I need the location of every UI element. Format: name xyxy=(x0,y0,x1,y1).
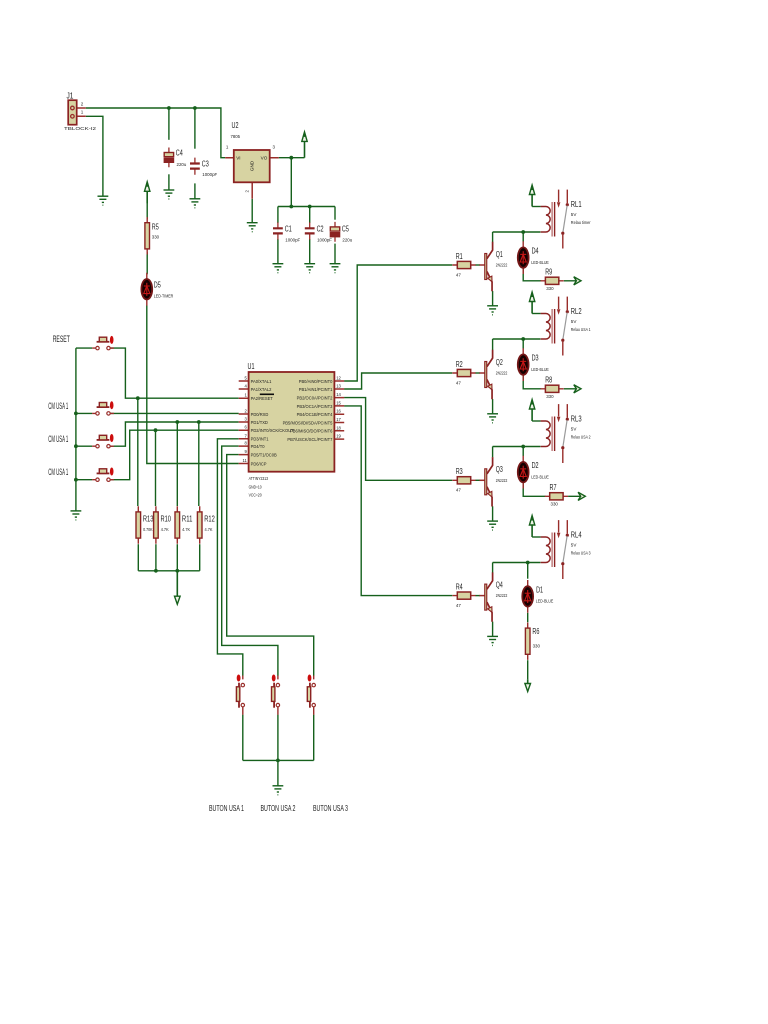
wire VO branch down to cap rail xyxy=(290,158,292,207)
svg-text:4: 4 xyxy=(244,384,247,389)
svg-text:16: 16 xyxy=(336,409,341,414)
wire D5 cathode to U1 PD6 xyxy=(147,306,239,464)
svg-text:ATTINY2313: ATTINY2313 xyxy=(249,476,269,481)
svg-text:19: 19 xyxy=(336,434,341,439)
wire CM USA row3 to U1 PD2 xyxy=(111,430,239,480)
capacitor C5 (electrolytic) xyxy=(330,222,339,242)
svg-text:C4: C4 xyxy=(176,149,183,158)
svg-text:PD0/RXD: PD0/RXD xyxy=(251,412,269,417)
wire J1 pin1 to ground xyxy=(86,116,103,196)
wire R6 to down arrow xyxy=(527,660,529,679)
svg-text:GND=10: GND=10 xyxy=(249,484,262,489)
node RESET/R13 junction xyxy=(136,396,140,400)
svg-text:4.7K: 4.7K xyxy=(161,527,169,532)
wire D1 cathode to R6 xyxy=(527,613,529,622)
power +5V arrow for RL2 xyxy=(529,292,534,314)
wire R9 output xyxy=(564,280,580,282)
wire left button bus xyxy=(75,348,77,511)
node R10 net junction xyxy=(154,428,158,432)
wire Q3 collector to relay coil xyxy=(493,446,541,448)
svg-text:TBLOCK-I2: TBLOCK-I2 xyxy=(64,126,97,131)
ground below Q1 xyxy=(487,306,498,315)
svg-text:C1: C1 xyxy=(285,224,292,233)
svg-text:BUTON USA 3: BUTON USA 3 xyxy=(313,804,348,813)
connector J1 (TBLOCK-I2) xyxy=(68,100,86,125)
svg-text:2N2222: 2N2222 xyxy=(496,478,508,483)
wire LED drop row 3 xyxy=(522,447,524,457)
push button RESET xyxy=(92,336,114,350)
wire U1 PD3 to BUTON USA 1 xyxy=(217,439,242,676)
svg-text:5V: 5V xyxy=(571,212,578,217)
wire Q1 emitter to ground xyxy=(492,291,494,306)
svg-text:1000pF: 1000pF xyxy=(285,238,300,243)
svg-text:R5: R5 xyxy=(152,223,159,232)
ground below Q4 xyxy=(487,636,498,645)
wire BUTON USA 1 bottom xyxy=(242,715,244,761)
node C4 tap on V+ wire xyxy=(167,106,171,110)
svg-text:2: 2 xyxy=(81,102,84,107)
svg-text:17: 17 xyxy=(336,417,341,422)
svg-text:R7: R7 xyxy=(550,483,557,492)
svg-text:Q2: Q2 xyxy=(496,358,503,367)
resistor R3 (47) xyxy=(452,477,475,484)
svg-text:2: 2 xyxy=(244,409,247,414)
svg-text:0.70K: 0.70K xyxy=(143,527,153,532)
wire LED drop row 4 xyxy=(527,563,529,579)
push button BUTON USA 3 xyxy=(307,675,315,715)
node Q2 collector junction xyxy=(521,337,525,341)
svg-text:PD6/ICP: PD6/ICP xyxy=(251,461,267,466)
node pullup rail junction R11 xyxy=(175,569,179,573)
svg-text:1: 1 xyxy=(226,145,229,150)
resistor R12 (4.7K) xyxy=(197,506,202,543)
svg-text:220u: 220u xyxy=(342,238,352,243)
svg-text:RL1: RL1 xyxy=(571,200,582,209)
output arrow after R8 xyxy=(574,385,581,393)
svg-text:R10: R10 xyxy=(161,514,172,523)
ground below C5 xyxy=(330,264,341,273)
ground below J1 xyxy=(98,196,109,205)
wire Q4 collector to relay coil xyxy=(493,562,541,564)
relay RL4 xyxy=(541,520,569,579)
wire R3 to Q3 base xyxy=(475,479,480,481)
push button CM USA 1 (row2) xyxy=(92,434,114,448)
node bus row1 junction xyxy=(74,412,78,416)
svg-text:4.7K: 4.7K xyxy=(205,527,213,532)
wire R10 to PD2 net xyxy=(155,430,157,506)
resistor R9 (330) xyxy=(541,277,564,284)
power +5V arrow at U2 output xyxy=(302,132,307,158)
wire D2 cathode to R7 xyxy=(523,482,545,496)
svg-text:D3: D3 xyxy=(532,354,539,363)
svg-text:PB1/AIN1/PCINT1: PB1/AIN1/PCINT1 xyxy=(299,387,333,392)
svg-text:Q1: Q1 xyxy=(496,250,503,259)
wire relay RL1 coil feed xyxy=(532,206,541,208)
ground below C3 xyxy=(190,199,201,208)
svg-text:11: 11 xyxy=(242,458,247,463)
wire C4 top tap xyxy=(168,108,170,140)
svg-text:47: 47 xyxy=(456,272,462,277)
svg-text:6: 6 xyxy=(244,425,247,430)
transistor Q3 (NPN 2N2222) xyxy=(479,457,492,506)
svg-text:5V: 5V xyxy=(571,542,578,547)
svg-text:RL3: RL3 xyxy=(571,415,582,424)
svg-text:15: 15 xyxy=(336,400,341,405)
transistor Q4 (NPN 2N2222) xyxy=(479,572,492,621)
ground below C4 xyxy=(164,190,175,199)
wire relay RL3 coil feed xyxy=(532,420,541,422)
svg-text:PB3/OC1A/PCINT3: PB3/OC1A/PCINT3 xyxy=(297,404,333,409)
wire rail to C5 xyxy=(334,207,336,220)
svg-text:Relau USA 2: Relau USA 2 xyxy=(571,435,591,440)
wire capacitor rail xyxy=(278,206,335,208)
wire Q2 emitter to ground xyxy=(492,399,494,414)
svg-text:PD5/T1/OC0B: PD5/T1/OC0B xyxy=(251,453,277,458)
svg-text:330: 330 xyxy=(152,235,160,240)
svg-text:R1: R1 xyxy=(456,252,463,261)
svg-text:GND: GND xyxy=(250,160,255,171)
svg-text:LED-BLUE: LED-BLUE xyxy=(531,260,549,265)
wire bus to CM USA row3 xyxy=(76,479,92,481)
wire BUTON USA 3 bottom xyxy=(313,715,315,761)
wire U1 PB1 to R2 xyxy=(344,373,452,389)
wire buttons bottom rail xyxy=(243,759,314,761)
output arrow after R9 xyxy=(574,277,581,285)
svg-text:PD2/INT0/XCK/CKOUT: PD2/INT0/XCK/CKOUT xyxy=(251,428,294,433)
svg-text:1: 1 xyxy=(81,110,84,115)
svg-text:4.7K: 4.7K xyxy=(182,527,190,532)
wire R1 to Q1 base xyxy=(475,264,480,266)
wire +5V to R5 xyxy=(146,193,148,219)
svg-text:Q4: Q4 xyxy=(496,580,503,589)
svg-text:PB7/USCK/SCL/PCINT7: PB7/USCK/SCL/PCINT7 xyxy=(287,437,333,442)
svg-text:Relau USA 3: Relau USA 3 xyxy=(571,551,591,556)
svg-text:PB5/MOSI/DI/SDA/PCINT5: PB5/MOSI/DI/SDA/PCINT5 xyxy=(283,420,334,425)
wire R4 to Q4 base xyxy=(475,595,480,597)
capacitor C1 xyxy=(273,222,283,239)
wire Q3 collector vertical xyxy=(492,447,494,458)
node Q3 collector junction xyxy=(521,445,525,449)
ground below Q3 xyxy=(487,521,498,530)
wire C3 top tap xyxy=(194,108,196,149)
resistor R4 (47) xyxy=(452,592,475,599)
wire relay RL2 coil feed xyxy=(532,313,541,315)
wire BUTON USA 2 bottom xyxy=(277,715,279,761)
wire rail to C2 xyxy=(309,207,311,223)
ground below Q2 xyxy=(487,414,498,423)
svg-text:D2: D2 xyxy=(532,461,539,470)
wire LED drop row 1 xyxy=(522,232,524,242)
svg-text:LED-BLUE: LED-BLUE xyxy=(531,474,549,479)
wire R13 bottom xyxy=(137,544,139,571)
wire Q1 collector to relay coil xyxy=(493,231,541,233)
svg-text:C2: C2 xyxy=(317,224,324,233)
svg-text:330: 330 xyxy=(546,286,554,291)
wire Q2 collector to relay coil xyxy=(493,338,541,340)
wire D3 cathode to R8 xyxy=(523,375,541,389)
svg-text:R6: R6 xyxy=(532,627,539,636)
svg-text:47: 47 xyxy=(456,488,462,493)
push button BUTON USA 1 xyxy=(236,675,244,715)
capacitor C3 xyxy=(190,158,200,175)
svg-text:VO: VO xyxy=(261,156,268,161)
svg-text:R2: R2 xyxy=(456,360,463,369)
svg-text:CM USA 1: CM USA 1 xyxy=(48,401,68,411)
wire Q4 collector vertical xyxy=(492,563,494,573)
label U1 PA2/RESET overline xyxy=(260,393,274,395)
wire CM USA row1 to U1 PD0 xyxy=(111,412,239,414)
wire pullup bottom rail xyxy=(138,570,199,572)
svg-text:R9: R9 xyxy=(545,267,552,276)
svg-text:LED-BLUE: LED-BLUE xyxy=(536,599,554,604)
svg-text:RL2: RL2 xyxy=(571,307,582,316)
resistor R5 (330) xyxy=(145,217,150,254)
wire U1 PB0 to R1 xyxy=(344,265,452,381)
svg-text:U1: U1 xyxy=(248,362,255,371)
node VO junction xyxy=(289,156,293,160)
svg-text:PD3/INT1: PD3/INT1 xyxy=(251,437,270,442)
capacitor C4 (electrolytic) xyxy=(164,148,173,168)
svg-text:18: 18 xyxy=(336,425,341,430)
node buttons rail junction xyxy=(276,759,280,763)
wire U1 PB2 to R3 xyxy=(344,398,452,481)
svg-text:LED-BLUE: LED-BLUE xyxy=(531,367,549,372)
svg-text:RL4: RL4 xyxy=(571,531,582,540)
node bus row3 junction xyxy=(74,478,78,482)
svg-text:PB6/MISO/DO/PCINT6: PB6/MISO/DO/PCINT6 xyxy=(290,429,333,434)
svg-text:BUTON USA 1: BUTON USA 1 xyxy=(209,804,244,813)
LED D4 xyxy=(518,241,529,274)
wire U1 PD5 to BUTON USA 3 xyxy=(227,455,314,676)
resistor R8 (330) xyxy=(541,385,564,392)
wire RESET net to R13 xyxy=(137,398,139,506)
node Q1 collector junction xyxy=(521,230,525,234)
svg-text:5: 5 xyxy=(244,376,247,381)
push button CM USA 1 (row3) xyxy=(92,468,114,482)
wire Q4 emitter to ground xyxy=(492,622,494,637)
svg-text:D4: D4 xyxy=(532,247,539,256)
wire U1 PB3 to R4 xyxy=(344,406,452,596)
svg-text:U2: U2 xyxy=(232,121,239,130)
svg-text:1000pF: 1000pF xyxy=(202,172,217,177)
svg-text:PA0/XTAL1: PA0/XTAL1 xyxy=(251,379,273,384)
svg-text:R3: R3 xyxy=(456,467,463,476)
node bus row2 junction xyxy=(74,444,78,448)
transistor Q1 (NPN 2N2222) xyxy=(479,242,492,291)
wire C4 to ground xyxy=(168,174,170,190)
wire R11 to PD1 net xyxy=(176,422,178,506)
wire Q3 emitter to ground xyxy=(492,506,494,521)
LED D5 xyxy=(141,273,152,306)
svg-text:1: 1 xyxy=(244,393,247,398)
wire R2 to Q2 base xyxy=(475,372,480,374)
svg-text:BUTON USA 2: BUTON USA 2 xyxy=(261,804,296,813)
node Q4 collector junction xyxy=(526,561,530,565)
wire U1 PD4 to BUTON USA 2 xyxy=(222,446,278,675)
wire R12 to PD1 net xyxy=(198,422,200,506)
svg-text:Q3: Q3 xyxy=(496,465,503,474)
wire C2 to ground xyxy=(309,239,311,264)
svg-text:D5: D5 xyxy=(154,280,161,289)
wire buttons rail to ground xyxy=(277,760,279,785)
relay RL3 xyxy=(541,404,569,463)
svg-text:2N2222: 2N2222 xyxy=(496,263,508,268)
svg-text:C3: C3 xyxy=(202,159,209,168)
wire R10 bottom xyxy=(155,544,157,571)
svg-text:7805: 7805 xyxy=(231,134,241,139)
capacitor C2 xyxy=(305,222,315,239)
push button BUTON USA 2 xyxy=(272,675,280,715)
svg-text:R8: R8 xyxy=(545,375,552,384)
wire rail to C1 xyxy=(277,207,279,223)
output arrow after R7 xyxy=(578,492,585,500)
wire R5 to D5 xyxy=(146,252,148,274)
resistor R2 (47) xyxy=(452,369,475,376)
wire Q1 collector vertical xyxy=(492,232,494,242)
svg-text:13: 13 xyxy=(336,384,341,389)
svg-text:PD1/TXD: PD1/TXD xyxy=(251,420,268,425)
transistor Q2 (NPN 2N2222) xyxy=(479,350,492,399)
svg-text:PA2/RESET: PA2/RESET xyxy=(251,396,274,401)
ground below C1 xyxy=(273,264,284,273)
svg-text:PB2/OC0A/PCINT2: PB2/OC0A/PCINT2 xyxy=(297,396,333,401)
svg-text:330: 330 xyxy=(546,394,554,399)
svg-text:2N2222: 2N2222 xyxy=(496,371,508,376)
resistor R11 (4.7K) xyxy=(175,506,180,543)
resistor R13 (0.70K) xyxy=(136,506,141,543)
svg-text:CM USA 1: CM USA 1 xyxy=(48,467,68,477)
svg-text:PA1/XTAL2: PA1/XTAL2 xyxy=(251,387,273,392)
LED D3 xyxy=(518,348,529,381)
power +5V arrow for RL3 xyxy=(529,400,534,422)
svg-text:47: 47 xyxy=(456,380,462,385)
svg-text:5V: 5V xyxy=(571,319,578,324)
wire bus to RESET button xyxy=(76,347,92,349)
svg-text:14: 14 xyxy=(336,392,341,397)
svg-text:PB0/AIN0/PCINT0: PB0/AIN0/PCINT0 xyxy=(299,379,333,384)
svg-text:7: 7 xyxy=(244,433,247,438)
svg-text:9: 9 xyxy=(244,449,247,454)
svg-text:CM USA 1: CM USA 1 xyxy=(48,434,68,444)
wire U2 GND pin to ground xyxy=(251,199,253,223)
svg-text:Relau timer: Relau timer xyxy=(571,220,591,225)
wire bus to CM USA row2 xyxy=(76,445,92,447)
power +5V arrow above R5 xyxy=(145,182,150,204)
wire C5 to ground xyxy=(334,244,336,264)
svg-text:2N2222: 2N2222 xyxy=(496,593,508,598)
LED D1 xyxy=(522,580,533,613)
svg-text:47: 47 xyxy=(456,603,462,608)
svg-text:Relau USA 1: Relau USA 1 xyxy=(571,327,591,332)
wire CM USA row2 to U1 PD1 xyxy=(111,422,239,446)
power +5V arrow for RL4 xyxy=(529,516,534,538)
svg-text:VCC=20: VCC=20 xyxy=(249,493,262,498)
wire R7 output xyxy=(568,495,584,497)
svg-text:R11: R11 xyxy=(182,514,193,523)
svg-text:8: 8 xyxy=(244,441,247,446)
svg-text:2: 2 xyxy=(245,190,250,193)
node C3 tap on V+ wire xyxy=(193,106,197,110)
svg-text:R4: R4 xyxy=(456,582,463,591)
wire U2 VO to +5V xyxy=(279,157,305,159)
wire D4 cathode to R9 xyxy=(523,268,541,281)
svg-text:1000pF: 1000pF xyxy=(317,238,332,243)
wire C1 to ground xyxy=(277,239,279,264)
svg-text:RESET: RESET xyxy=(53,334,71,344)
node R11 net junction xyxy=(175,420,179,424)
svg-text:VI: VI xyxy=(236,156,240,161)
wire RESET button to U1 PA2 xyxy=(111,348,239,398)
power +5V arrow for RL1 xyxy=(529,185,534,207)
relay RL2 xyxy=(541,297,569,356)
ground below button bus xyxy=(71,511,82,520)
ground below buttons rail xyxy=(273,786,284,795)
svg-text:3: 3 xyxy=(244,417,247,422)
svg-text:J1: J1 xyxy=(67,91,74,100)
svg-text:D1: D1 xyxy=(536,585,543,594)
resistor R7 (330) xyxy=(545,493,568,500)
ground below U2 xyxy=(247,223,258,232)
power down arrow below R6 xyxy=(525,679,531,691)
node R12 net junction xyxy=(197,420,201,424)
relay RL1 xyxy=(541,190,569,249)
wire LED drop row 2 xyxy=(522,339,524,349)
wire bus to CM USA row1 xyxy=(76,412,92,414)
resistor R6 (330) xyxy=(525,623,530,660)
svg-text:LED-TIMER: LED-TIMER xyxy=(154,294,174,299)
wire J1 pin2 to U2 VI xyxy=(86,108,226,158)
svg-text:PD4/T0: PD4/T0 xyxy=(251,444,266,449)
wire R11 bottom xyxy=(176,544,178,571)
svg-text:R13: R13 xyxy=(143,514,154,523)
wire C3 to ground xyxy=(194,183,196,198)
svg-text:C5: C5 xyxy=(342,224,349,233)
wire relay RL4 coil feed xyxy=(532,536,541,538)
resistor R1 (47) xyxy=(452,261,475,268)
svg-text:R12: R12 xyxy=(204,514,215,523)
LED D2 xyxy=(518,456,529,489)
svg-text:PB4/OC1B/PCINT4: PB4/OC1B/PCINT4 xyxy=(297,412,333,417)
node C2 rail junction xyxy=(308,205,312,209)
node rail/VO junction xyxy=(289,205,293,209)
svg-text:3: 3 xyxy=(273,145,276,150)
svg-text:220u: 220u xyxy=(177,162,187,167)
svg-text:330: 330 xyxy=(551,502,559,507)
wire R8 output xyxy=(564,388,580,390)
IC U1 ATTINY2313 xyxy=(239,372,344,472)
svg-text:12: 12 xyxy=(336,376,341,381)
node pullup rail junction R10 xyxy=(154,569,158,573)
power down arrow below pullup rail xyxy=(175,571,181,604)
wire Q2 collector vertical xyxy=(492,339,494,350)
ground below C2 xyxy=(304,264,315,273)
push button CM USA 1 (row1) xyxy=(92,401,114,415)
svg-text:330: 330 xyxy=(533,643,541,648)
svg-text:5V: 5V xyxy=(571,426,578,431)
regulator U2 7805 xyxy=(225,150,279,199)
wire R12 bottom xyxy=(199,544,201,571)
resistor R10 (4.7K) xyxy=(154,506,159,543)
